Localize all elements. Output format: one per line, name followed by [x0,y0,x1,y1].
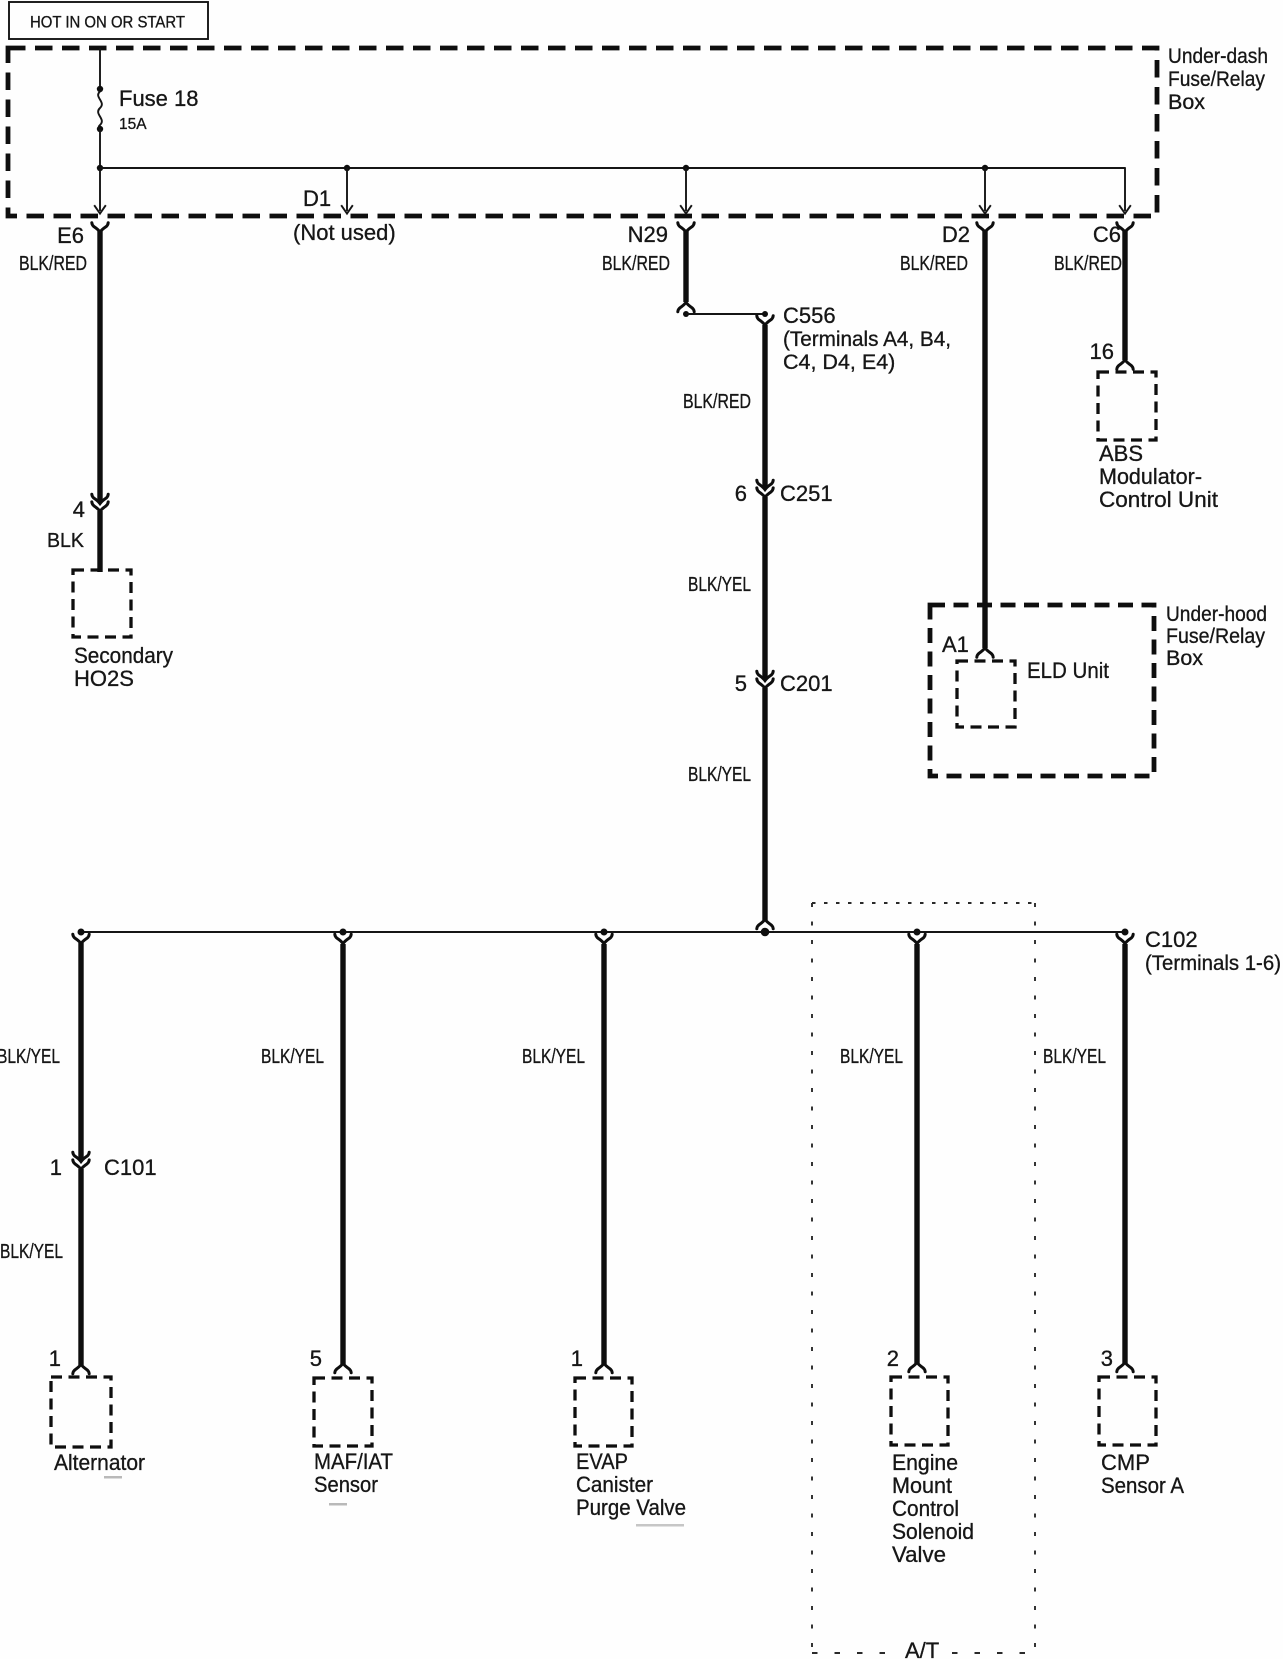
svg-text:BLK: BLK [47,530,85,552]
svg-text:BLK/RED: BLK/RED [19,253,87,275]
svg-text:Fuse/Relay: Fuse/Relay [1168,67,1265,91]
wire CMP drop (BLK/YEL) [1117,934,1133,943]
svg-text:Alternator: Alternator [54,1450,145,1475]
component ABS Modulator-Control Unit [1098,372,1156,440]
scan artifact [329,1503,347,1506]
wire C556 to C251 (BLK/RED) [762,325,767,488]
svg-text:Box: Box [1168,90,1205,114]
svg-text:BLK/RED: BLK/RED [602,253,670,275]
wire EVAP drop (BLK/YEL) [596,934,612,943]
svg-text:HOT IN ON OR START: HOT IN ON OR START [30,13,185,32]
node splice center (fat) [761,928,770,937]
node bus MAF drop [340,929,347,936]
svg-text:C556: C556 [783,303,836,328]
svg-text:N29: N29 [628,222,668,247]
node C556 link right [762,311,768,317]
svg-text:6: 6 [735,481,747,506]
svg-text:HO2S: HO2S [74,666,134,691]
svg-text:1: 1 [49,1346,61,1371]
svg-text:(Not used): (Not used) [293,220,396,245]
scan artifact [104,1476,122,1479]
svg-text:1: 1 [571,1346,583,1371]
wire alternator drop upper (BLK/YEL) [73,934,89,943]
component EVAP Canister Purge Valve [575,1378,632,1446]
svg-text:BLK/YEL: BLK/YEL [840,1046,903,1068]
svg-text:BLK/YEL: BLK/YEL [1043,1046,1106,1068]
Under-dash Fuse/Relay Box (dashed enclosure) [8,48,1157,216]
svg-text:A1: A1 [942,632,969,657]
scan artifact [636,1524,684,1527]
splice bus wire (bottom) [81,931,1125,933]
connector C201 pin 5 [757,671,773,680]
fuse 18 15A [97,86,103,92]
svg-text:16: 16 [1090,339,1114,364]
wire MAF/IAT drop (BLK/YEL) [335,934,351,943]
component Secondary HO2S [73,570,131,637]
svg-text:Fuse 18: Fuse 18 [119,86,199,111]
power source box HOT IN ON OR START [9,2,208,39]
wire from HOT to fuse [99,48,101,89]
node bus right end C102 [1122,929,1129,936]
node fuse/feeder junction [97,165,103,171]
component Engine Mount Control Solenoid Valve [891,1377,948,1445]
wire drop to N29 with arrow [685,168,687,211]
svg-text:Canister: Canister [576,1472,653,1497]
svg-text:ELD Unit: ELD Unit [1027,658,1109,683]
connector C556 [757,316,773,325]
wire drop to E6 with arrow [99,168,101,211]
svg-text:Solenoid: Solenoid [892,1519,974,1544]
wire C6 to ABS (BLK/RED) [1122,231,1127,360]
wire fuse to feeder node [99,129,101,168]
wire link N29 to C556 [686,313,765,315]
svg-text:C201: C201 [780,671,833,696]
svg-text:C102: C102 [1145,927,1198,952]
svg-text:5: 5 [310,1346,322,1371]
svg-text:(Terminals 1-6): (Terminals 1-6) [1145,951,1281,975]
wire C101 to alternator (BLK/YEL) [78,1169,83,1365]
svg-text:Engine: Engine [892,1450,958,1475]
svg-text:CMP: CMP [1101,1450,1150,1475]
svg-text:BLK/YEL: BLK/YEL [261,1046,324,1068]
svg-text:E6: E6 [57,223,84,248]
svg-text:BLK/RED: BLK/RED [900,253,968,275]
svg-text:BLK/YEL: BLK/YEL [688,574,751,596]
svg-text:MAF/IAT: MAF/IAT [314,1449,393,1474]
svg-text:C4, D4, E4): C4, D4, E4) [783,350,895,374]
svg-text:C251: C251 [780,481,833,506]
svg-text:1: 1 [50,1155,62,1180]
svg-text:Box: Box [1166,646,1203,670]
wire D2 to ELD (BLK/RED) [982,231,987,648]
node bus EVAP drop [601,929,608,936]
svg-text:A/T: A/T [905,1638,939,1659]
svg-text:D2: D2 [942,222,970,247]
node N29 junction [683,165,689,171]
svg-text:15A: 15A [119,116,147,133]
svg-text:(Terminals A4, B4,: (Terminals A4, B4, [783,327,951,351]
svg-text:BLK/YEL: BLK/YEL [522,1046,585,1068]
connector C101 pin 1 [73,1152,89,1161]
svg-text:Fuse/Relay: Fuse/Relay [1166,624,1265,648]
svg-text:Control Unit: Control Unit [1099,487,1218,512]
Under-hood Fuse/Relay Box (dashed enclosure) [930,605,1154,776]
component MAF/IAT Sensor [314,1378,372,1446]
svg-text:BLK/RED: BLK/RED [683,391,751,413]
wire drop to C6 with arrow [1124,167,1126,211]
svg-text:Purge Valve: Purge Valve [576,1495,686,1520]
svg-text:C101: C101 [104,1155,157,1180]
wire Engine Mount drop (BLK/YEL) [909,934,925,943]
svg-text:ABS: ABS [1099,441,1143,466]
component CMP Sensor A [1099,1377,1156,1445]
svg-text:4: 4 [73,497,85,522]
svg-text:EVAP: EVAP [576,1449,628,1474]
node bus Engine-Mount drop [914,929,921,936]
svg-text:Valve: Valve [892,1542,946,1567]
svg-text:3: 3 [1101,1346,1113,1371]
svg-text:Under-hood: Under-hood [1166,602,1267,626]
feeder bus wire inside fuse box [100,167,1125,169]
svg-text:Mount: Mount [892,1473,952,1498]
svg-text:BLK/RED: BLK/RED [1054,253,1122,275]
wire N29 short drop (BLK/RED) [683,231,688,302]
svg-text:Modulator-: Modulator- [1099,464,1202,489]
node bus left end [78,929,85,936]
node N29 link left [683,311,689,317]
node D2 junction [982,165,988,171]
wire connector 4 to Secondary HO2S [97,511,102,572]
component ELD Unit [957,661,1015,727]
wire E6 to connector 4 (BLK/RED) [97,231,102,502]
svg-text:BLK/YEL: BLK/YEL [0,1046,60,1068]
svg-text:2: 2 [887,1346,899,1371]
wire drop to D1 with arrow [346,168,348,211]
wire drop to D2 with arrow [984,168,986,211]
svg-text:BLK/YEL: BLK/YEL [688,764,751,786]
svg-text:5: 5 [735,671,747,696]
svg-text:Under-dash: Under-dash [1168,44,1268,68]
A/T dotted enclosure [812,903,1035,1653]
connector 4 [92,494,108,503]
wire C201 to splice bus (BLK/YEL) [762,688,767,920]
svg-text:D1: D1 [303,186,331,211]
svg-text:Sensor: Sensor [314,1472,378,1497]
svg-text:Sensor A: Sensor A [1101,1473,1184,1498]
node D1 junction [344,165,350,171]
svg-text:BLK/YEL: BLK/YEL [0,1241,63,1263]
svg-text:Secondary: Secondary [74,643,173,668]
terminal at splice bus [757,919,773,928]
connector C251 pin 6 [757,480,773,489]
component Alternator [51,1377,111,1447]
svg-text:Control: Control [892,1496,959,1521]
wire C251 to C201 (BLK/YEL) [762,497,767,679]
